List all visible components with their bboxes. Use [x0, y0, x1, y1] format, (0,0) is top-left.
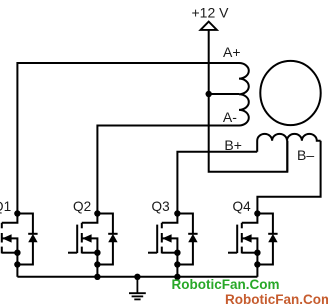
svg-text:Q3: Q3	[152, 199, 170, 214]
wire: net B+ (winding B left end to Q3 drain)	[177, 152, 257, 214]
junction: Q2 source on ground bus	[94, 274, 100, 280]
motor body (rotor circle)	[260, 61, 320, 125]
junction: Q1 source/diode-anode node	[14, 261, 20, 267]
inductor: stepper winding B (horizontal, centre-tapped)	[257, 134, 320, 152]
svg-text:RoboticFan.Com: RoboticFan.Com	[172, 277, 280, 292]
wire: winding A centre tap to +12V rail	[209, 93, 239, 95]
svg-text:Q1: Q1	[0, 199, 11, 214]
diode D3 (body/freewheel of Q3)	[177, 214, 197, 265]
wire: net A- (winding A bottom to Q2 drain)	[97, 126, 239, 214]
svg-text:B–: B–	[297, 147, 314, 163]
junction: +12V rail / winding A centre tap	[206, 91, 212, 97]
power rail +12V: arrow symbol	[201, 22, 217, 30]
svg-text:Q4: Q4	[233, 199, 252, 214]
diode D4 (body/freewheel of Q4)	[257, 214, 277, 265]
ground	[129, 277, 146, 300]
diode D2 (body/freewheel of Q2)	[97, 214, 117, 265]
wire: net A+ (winding A top to Q1 drain)	[17, 63, 239, 214]
junction: Q3 source/body node	[174, 250, 180, 256]
junction: ground symbol on bus	[134, 274, 140, 280]
junction: Q2 source/body node	[94, 250, 100, 256]
svg-text:+12 V: +12 V	[192, 4, 230, 20]
transistor Q2	[68, 214, 97, 277]
inductor: stepper winding A (vertical, centre-tapped)	[239, 63, 249, 125]
junction: Q1 drain node	[14, 210, 20, 216]
junction: Q4 drain node	[254, 210, 260, 216]
junction: Q1 source/body node	[14, 250, 20, 256]
svg-text:A+: A+	[223, 44, 241, 60]
diode D1 (body/freewheel of Q1)	[17, 214, 37, 265]
junction: Q4 source/body node	[254, 250, 260, 256]
wire: ground bus (sources of Q1-Q4)	[17, 276, 257, 278]
junction: Q2 drain node	[94, 210, 100, 216]
junction: Q3 source/diode-anode node	[174, 261, 180, 267]
wire: +12V rail vertical down to winding B centre tap	[209, 30, 288, 172]
wire: winding B centre tap down to +12V rail	[286, 141, 288, 172]
svg-text:RoboticFan.Com: RoboticFan.Com	[225, 292, 328, 306]
transistor Q4	[228, 214, 257, 277]
svg-text:B+: B+	[224, 137, 242, 153]
junction: Q2 source/diode-anode node	[94, 261, 100, 267]
junction: Q3 drain node	[174, 210, 180, 216]
transistor Q3	[148, 214, 177, 277]
svg-text:Q2: Q2	[73, 199, 91, 214]
transistor Q1	[0, 214, 17, 277]
svg-text:A-: A-	[223, 109, 237, 125]
junction: Q3 source on ground bus	[174, 274, 180, 280]
wire: net B- (winding B right end to Q4 drain)	[257, 141, 320, 214]
junction: Q4 source/diode-anode node	[254, 261, 260, 267]
